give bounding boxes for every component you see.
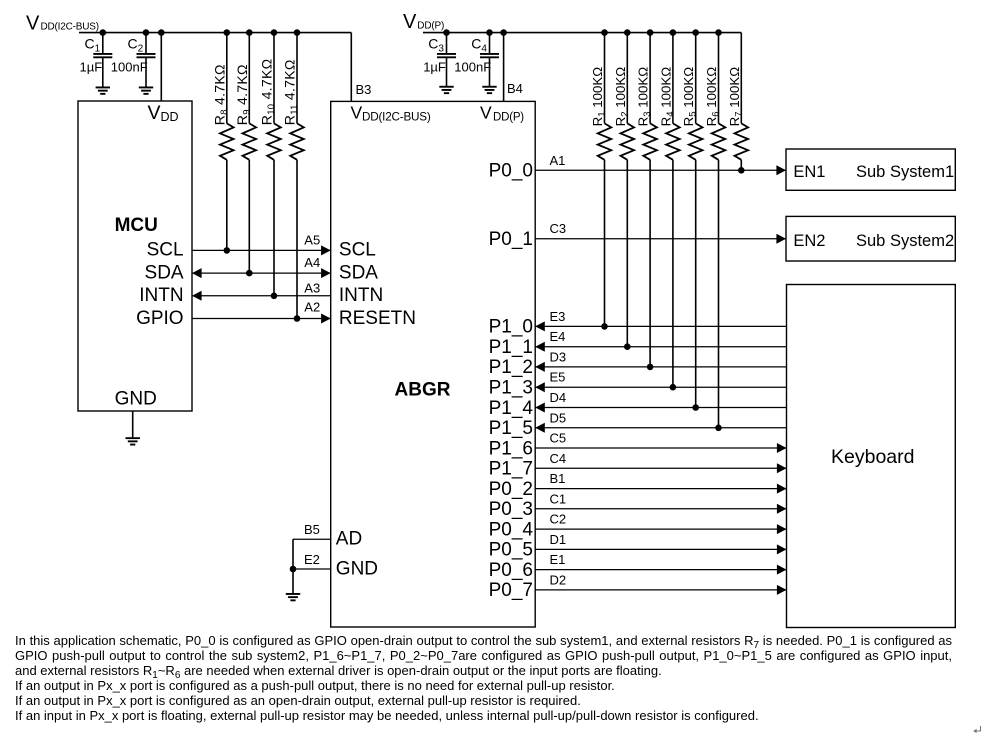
svg-text:DD(I2C-BUS): DD(I2C-BUS): [41, 22, 99, 33]
junction dot rail-R8: [224, 29, 231, 36]
arrowhead P0_7 into Keyboard: [777, 585, 787, 595]
resistor R11 zigzag: [290, 123, 304, 159]
junction dot rail-ABGR VDD(P): [500, 29, 507, 36]
svg-text:P0_3: P0_3: [489, 499, 533, 520]
junction dot rail-R5: [692, 29, 699, 36]
resistor R8 zigzag: [220, 123, 234, 159]
wire GND pin lead: [293, 568, 331, 570]
ground C4 ground: [482, 87, 496, 93]
svg-text:A3: A3: [304, 281, 320, 296]
resistor R1 zigzag: [598, 123, 612, 159]
svg-text:DD(P): DD(P): [417, 21, 444, 32]
ground C1 ground: [96, 87, 110, 93]
wire R8 top lead: [226, 33, 228, 124]
svg-text:R11 4.7KΩ: R11 4.7KΩ: [282, 59, 301, 125]
svg-text:EN1: EN1: [793, 163, 825, 181]
wire R2 bottom lead to P1_1: [626, 160, 628, 347]
svg-text:C3: C3: [428, 36, 444, 55]
svg-text:R7 100KΩ: R7 100KΩ: [727, 67, 745, 127]
svg-text:P0_1: P0_1: [489, 229, 533, 250]
wire P0_1 net to EN2: [535, 238, 786, 240]
junction dot R1-P1_0 junction: [601, 323, 608, 330]
arrowhead P1_3 into ABGR: [535, 382, 545, 392]
svg-text:P1_4: P1_4: [489, 398, 534, 419]
wire P0_4 net: [535, 528, 786, 530]
resistor R6 zigzag: [712, 123, 726, 159]
junction dot rail-C4: [486, 29, 493, 36]
svg-text:R9 4.7KΩ: R9 4.7KΩ: [234, 64, 253, 125]
wire R2 top lead: [626, 33, 628, 124]
arrowhead SDA into ABGR: [321, 268, 331, 278]
wire P1_2 net: [535, 366, 786, 368]
junction dot P0_0-R7: [738, 167, 745, 174]
wire P0_0 net to EN1: [535, 169, 786, 171]
junction dot rail-MCU VDD: [158, 29, 165, 36]
paragraph return mark: [972, 723, 984, 735]
svg-text:P1_3: P1_3: [489, 378, 533, 399]
junction dot rail-R1: [601, 29, 608, 36]
ground ABGR ground: [286, 594, 300, 600]
svg-text:V: V: [403, 11, 417, 33]
junction dot R4-P1_3 junction: [670, 384, 677, 391]
junction dot rail-R3: [647, 29, 654, 36]
capacitor C3: [437, 33, 456, 87]
junction dot INTN-R10: [271, 293, 278, 300]
svg-text:C5: C5: [550, 431, 567, 446]
svg-text:GND: GND: [115, 388, 157, 409]
svg-text:100nF: 100nF: [111, 60, 148, 75]
svg-text:R2 100KΩ: R2 100KΩ: [613, 67, 631, 127]
svg-text:D5: D5: [550, 410, 567, 425]
wire rail drop to ABGR pin B3: [350, 33, 352, 102]
svg-text:C2: C2: [550, 512, 567, 527]
resistor R5 zigzag: [689, 123, 703, 159]
svg-text:R1 100KΩ: R1 100KΩ: [590, 67, 608, 127]
svg-text:MCU: MCU: [115, 215, 158, 236]
wire R6 bottom lead to P1_5: [718, 160, 720, 428]
arrowhead P1_7 into Keyboard: [777, 463, 787, 473]
svg-text:GND: GND: [336, 558, 378, 579]
svg-text:AD: AD: [336, 529, 362, 550]
svg-text:P1_5: P1_5: [489, 418, 533, 439]
svg-text:C1: C1: [550, 491, 567, 506]
svg-text:P1_1: P1_1: [489, 337, 533, 358]
arrowhead P0_3 into Keyboard: [777, 504, 787, 514]
wire R9 bottom lead: [248, 160, 250, 273]
wire SDA net: [192, 272, 331, 274]
wire P0_6 net: [535, 569, 786, 571]
wire R5 top lead: [695, 33, 697, 124]
capacitor C2: [137, 33, 156, 87]
svg-text:B1: B1: [550, 471, 566, 486]
svg-text:1µF: 1µF: [423, 60, 446, 75]
wire P1_5 net: [535, 427, 786, 429]
svg-text:P0_6: P0_6: [489, 560, 533, 581]
svg-text:P1_6: P1_6: [489, 438, 533, 459]
arrowhead P1_6 into Keyboard: [777, 443, 787, 453]
resistor R2 zigzag: [621, 123, 635, 159]
arrowhead INTN into MCU: [192, 291, 202, 301]
svg-text:P1_7: P1_7: [489, 459, 533, 480]
wire P0_3 net: [535, 508, 786, 510]
wire R9 top lead: [248, 33, 250, 124]
junction dot AD-GND junction: [290, 566, 297, 573]
junction dot R5-P1_4 junction: [692, 404, 699, 411]
arrowhead P0_6 into Keyboard: [777, 565, 787, 575]
svg-text:C3: C3: [550, 221, 567, 236]
svg-text:P0_2: P0_2: [489, 479, 533, 500]
junction dot rail-C3: [443, 29, 450, 36]
wire VDD(I2C-BUS) rail: [79, 32, 351, 34]
svg-text:A1: A1: [550, 153, 566, 168]
wire MCU GND stem: [132, 411, 134, 437]
arrowhead P1_2 into ABGR: [535, 362, 545, 372]
wire P0_5 net: [535, 548, 786, 550]
wire VDD(P) rail: [423, 32, 741, 34]
svg-text:RESETN: RESETN: [339, 308, 416, 329]
wire P1_6 net: [535, 447, 786, 449]
wire R1 bottom lead to P1_0: [604, 160, 606, 327]
svg-text:C1: C1: [85, 36, 101, 55]
svg-text:E1: E1: [550, 552, 566, 567]
svg-text:Sub System1: Sub System1: [856, 163, 954, 181]
svg-text:INTN: INTN: [339, 285, 383, 306]
svg-text:P1_0: P1_0: [489, 317, 533, 338]
junction dot rail-R9: [246, 29, 253, 36]
block MCU: [78, 101, 192, 411]
svg-text:DD(P): DD(P): [493, 111, 524, 123]
svg-text:P0_0: P0_0: [489, 161, 533, 182]
wire SCL net: [192, 249, 331, 251]
svg-text:SDA: SDA: [145, 262, 184, 283]
svg-text:1µF: 1µF: [80, 60, 103, 75]
svg-text:D3: D3: [550, 349, 567, 364]
svg-text:E5: E5: [550, 370, 566, 385]
resistor R4 zigzag: [666, 123, 680, 159]
wire R8 bottom lead: [226, 160, 228, 251]
svg-text:R3 100KΩ: R3 100KΩ: [636, 67, 654, 127]
wire P1_1 net: [535, 346, 786, 348]
junction dot R6-P1_5 junction: [715, 425, 722, 432]
svg-text:A5: A5: [304, 232, 320, 247]
wire P1_0 net: [535, 325, 786, 327]
svg-text:SCL: SCL: [147, 240, 184, 261]
wire P1_7 net: [535, 467, 786, 469]
junction dot SDA-R9: [246, 270, 253, 277]
junction dot rail-R2: [624, 29, 631, 36]
wire R7 top lead: [740, 33, 742, 124]
junction dot rail-R10: [271, 29, 278, 36]
arrowhead P0_0 into Sub System1: [776, 165, 786, 175]
capacitor C4: [480, 33, 499, 87]
wire rail drop to MCU VDD: [160, 33, 162, 101]
wire R4 bottom lead to P1_3: [672, 160, 674, 387]
svg-text:V: V: [148, 102, 161, 124]
wire R10 bottom lead: [273, 160, 275, 296]
svg-text:V: V: [26, 12, 40, 34]
junction dot rail-R11: [294, 29, 301, 36]
svg-text:P1_2: P1_2: [489, 357, 533, 378]
arrowhead P1_5 into ABGR: [535, 423, 545, 433]
svg-text:A4: A4: [304, 255, 320, 270]
svg-text:C4: C4: [471, 36, 487, 55]
svg-text:B4: B4: [507, 81, 523, 96]
junction dot rail-C2: [143, 29, 150, 36]
note paragraph: [15, 634, 952, 723]
svg-text:SDA: SDA: [339, 262, 378, 283]
svg-text:C4: C4: [550, 451, 567, 466]
wire INTN net: [192, 295, 331, 297]
wire R6 top lead: [718, 33, 720, 124]
wire R3 top lead: [649, 33, 651, 124]
svg-text:V: V: [480, 102, 492, 122]
resistor R7 zigzag: [735, 123, 749, 159]
wire R4 top lead: [672, 33, 674, 124]
wire R11 bottom lead: [296, 160, 298, 319]
ground MCU ground: [126, 438, 140, 444]
svg-text:D1: D1: [550, 532, 567, 547]
wire P0_7 net: [535, 589, 786, 591]
block Sub System1: [786, 149, 955, 190]
wire P0_2 net: [535, 488, 786, 490]
svg-text:R6 100KΩ: R6 100KΩ: [704, 67, 722, 127]
svg-text:INTN: INTN: [139, 285, 183, 306]
arrowhead SDA into MCU: [192, 268, 202, 278]
wire P1_3 net: [535, 386, 786, 388]
svg-text:B3: B3: [356, 82, 372, 97]
junction dot rail-R6: [715, 29, 722, 36]
resistor R9 zigzag: [243, 123, 257, 159]
svg-text:P0_4: P0_4: [489, 519, 534, 540]
junction dot rail-R4: [670, 29, 677, 36]
svg-text:Sub System2: Sub System2: [856, 232, 954, 250]
svg-text:D4: D4: [550, 390, 567, 405]
arrowhead P1_0 into ABGR: [535, 321, 545, 331]
svg-text:SCL: SCL: [339, 240, 376, 261]
wire R1 top lead: [604, 33, 606, 124]
arrowhead P0_4 into Keyboard: [777, 524, 787, 534]
wire R7 bottom lead to P0_0: [740, 160, 742, 171]
wire R11 top lead: [296, 33, 298, 124]
wire P1_4 net: [535, 407, 786, 409]
ground C2 ground: [139, 87, 153, 93]
svg-text:B5: B5: [304, 522, 320, 537]
svg-text:P0_5: P0_5: [489, 540, 533, 561]
junction dot R2-P1_1 junction: [624, 343, 631, 350]
svg-text:DD: DD: [161, 110, 179, 124]
block ABGR: [331, 101, 536, 627]
svg-text:Keyboard: Keyboard: [831, 446, 914, 468]
wire R10 top lead: [273, 33, 275, 124]
junction dot SCL-R8: [224, 247, 231, 254]
arrowhead RESETN into ABGR: [321, 314, 331, 324]
svg-text:P0_7: P0_7: [489, 580, 533, 601]
junction dot RESETN-R11: [294, 315, 301, 322]
svg-text:EN2: EN2: [793, 232, 825, 250]
resistor R3 zigzag: [643, 123, 657, 159]
svg-text:D2: D2: [550, 572, 567, 587]
arrowhead P0_1 into Sub System2: [776, 234, 786, 244]
svg-text:DD(I2C-BUS): DD(I2C-BUS): [362, 110, 431, 123]
junction dot R3-P1_2 junction: [647, 364, 654, 371]
wire R3 bottom lead to P1_2: [649, 160, 651, 367]
block Keyboard: [787, 285, 956, 628]
wire R5 bottom lead to P1_4: [695, 160, 697, 408]
svg-text:100nF: 100nF: [454, 60, 491, 75]
junction dot rail-C1: [100, 29, 107, 36]
wire GPIO-RESETN net: [192, 318, 331, 320]
svg-text:R10 4.7KΩ: R10 4.7KΩ: [259, 59, 278, 126]
arrowhead P0_2 into Keyboard: [777, 484, 787, 494]
wire rail drop to ABGR pin B4: [503, 33, 505, 102]
svg-text:A2: A2: [304, 300, 320, 315]
svg-text:V: V: [351, 102, 363, 122]
capacitor C1: [93, 33, 112, 87]
arrowhead P1_4 into ABGR: [535, 403, 545, 413]
wire AD-GND tie: [292, 539, 294, 593]
svg-text:R8 4.7KΩ: R8 4.7KΩ: [211, 64, 230, 125]
svg-text:C2: C2: [128, 36, 144, 55]
wire AD pin lead: [293, 538, 331, 540]
svg-text:E3: E3: [550, 309, 566, 324]
svg-text:R4 100KΩ: R4 100KΩ: [658, 67, 676, 127]
svg-text:E2: E2: [304, 552, 320, 567]
svg-text:E4: E4: [550, 329, 566, 344]
resistor R10 zigzag: [267, 123, 281, 159]
arrowhead P1_1 into ABGR: [535, 342, 545, 352]
svg-text:R5 100KΩ: R5 100KΩ: [681, 67, 699, 127]
block Sub System2: [786, 216, 955, 261]
ground C3 ground: [439, 87, 453, 93]
svg-text:GPIO: GPIO: [136, 308, 184, 329]
svg-text:ABGR: ABGR: [395, 380, 451, 401]
arrowhead P0_5 into Keyboard: [777, 544, 787, 554]
arrowhead SCL into ABGR: [321, 245, 331, 255]
